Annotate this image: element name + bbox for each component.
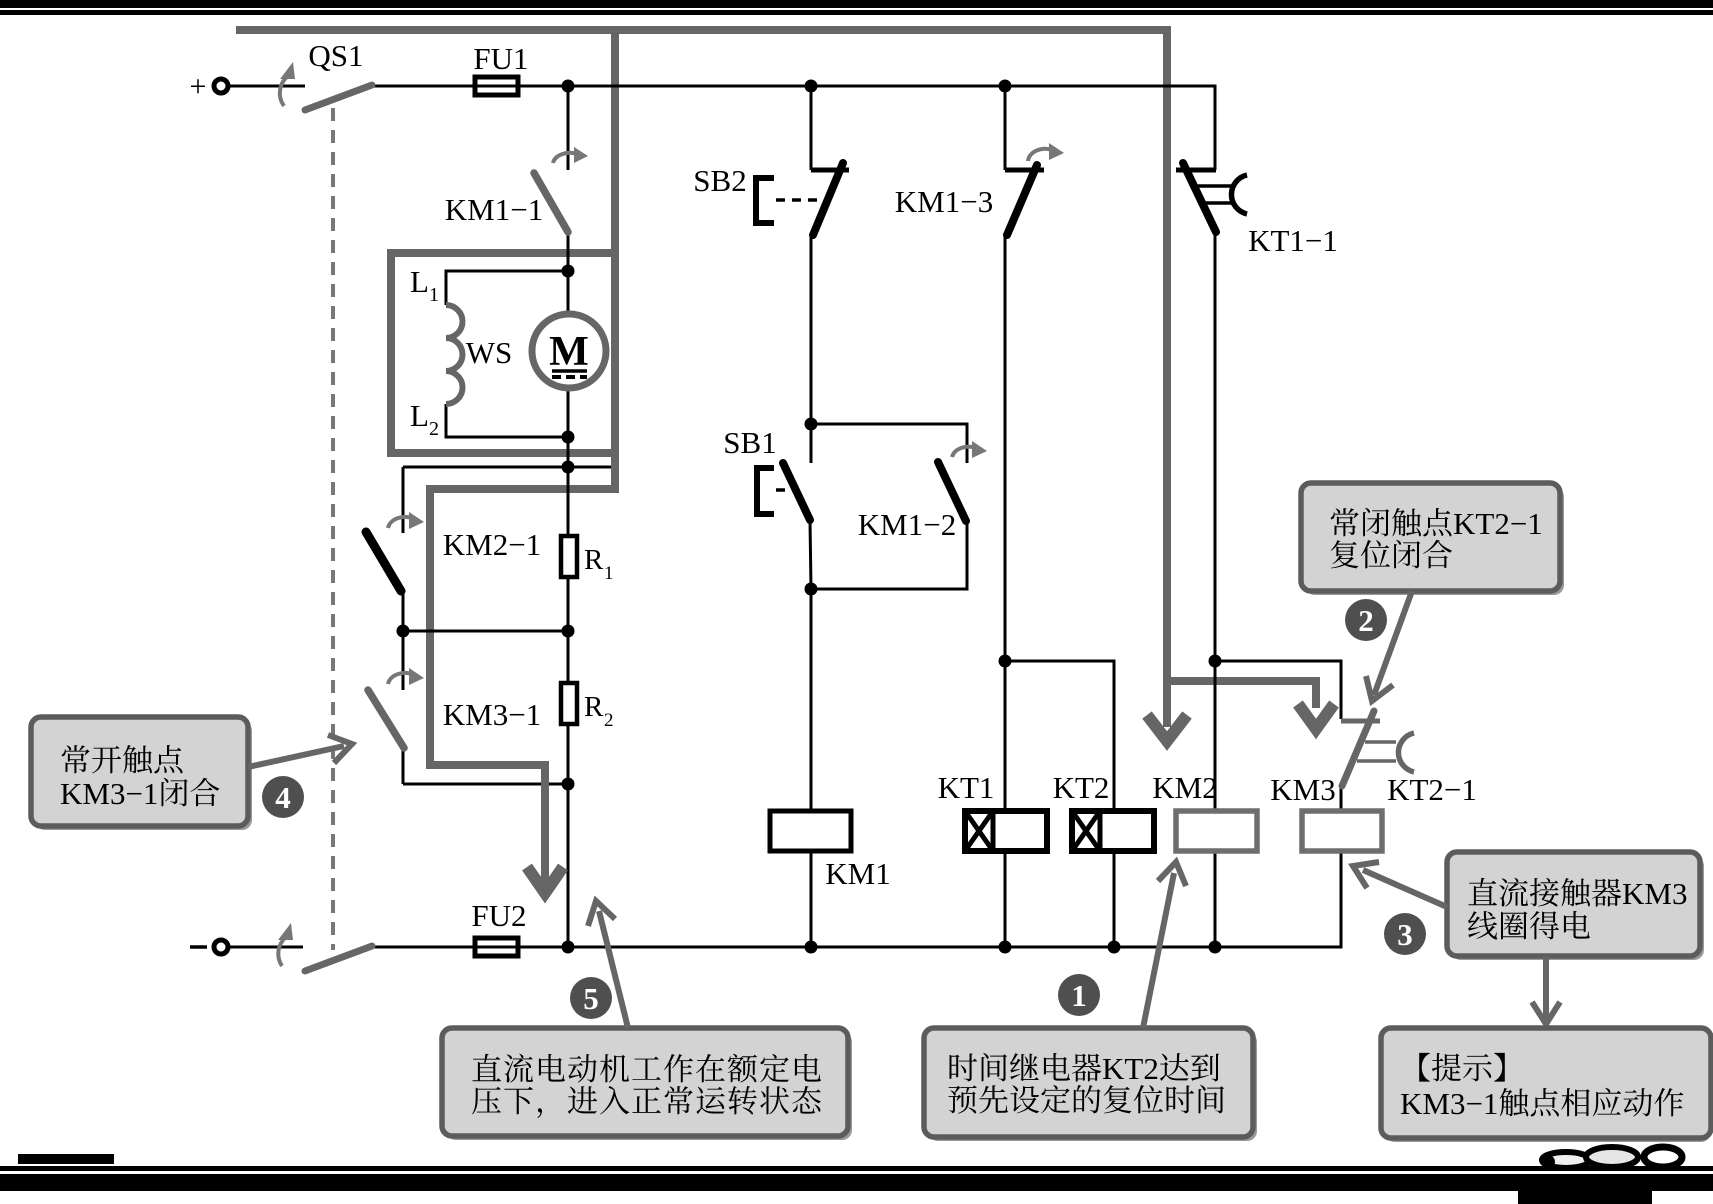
svg-text:KM2−1: KM2−1 — [443, 527, 541, 562]
svg-text:KT2−1: KT2−1 — [1453, 506, 1543, 541]
junction node: FU1 / KM1-1 branch on + rail — [562, 80, 575, 93]
action arrow at KM1-2 — [952, 441, 987, 458]
label KM1-1 — [445, 192, 543, 227]
flow arrow from box 3 to hint box — [1532, 956, 1560, 1024]
label KM2 — [1152, 770, 1217, 805]
action arrow at KM1-3 — [1028, 143, 1064, 161]
svg-text:KM3: KM3 — [1270, 772, 1335, 807]
svg-text:M: M — [549, 329, 589, 375]
wire: R1 branch — [567, 467, 570, 631]
coil KM2 (gray, energizing) — [1176, 811, 1257, 851]
svg-text:L: L — [410, 264, 429, 299]
wire: tap row to KT2 branch — [1005, 661, 1114, 947]
wire: KM3-1 branch — [402, 631, 405, 784]
resistor R2 — [561, 683, 577, 724]
label L2 — [410, 398, 439, 440]
svg-text:R: R — [584, 544, 604, 576]
svg-text:4: 4 — [275, 780, 291, 815]
resistor R1 — [561, 536, 577, 577]
svg-text:3: 3 — [1397, 917, 1413, 952]
contact KM3-1 (NO, gray blade) — [368, 690, 404, 748]
step circle 1 — [1058, 974, 1100, 1016]
motor enclosure box — [391, 253, 615, 453]
svg-text:KM3−1: KM3−1 — [443, 697, 541, 732]
label KM1-2 — [858, 507, 956, 542]
svg-text:KT1−1: KT1−1 — [1248, 223, 1338, 258]
callout hint box — [1381, 1028, 1711, 1142]
coil KM3 (gray, energizing) — [1302, 811, 1382, 851]
wire: KM1-3 branch to KT1 coil — [1004, 86, 1007, 947]
junction node: KM1 coil on - rail — [805, 941, 818, 954]
label QS1 — [308, 38, 363, 73]
action arrow at KM1-1 — [553, 147, 588, 163]
svg-text:KM3−1: KM3−1 — [60, 776, 158, 811]
callout box 2: NC contact KT2-1 recloses — [1301, 483, 1564, 595]
wire: node row below motor box — [403, 466, 611, 469]
svg-text:2: 2 — [1358, 603, 1374, 638]
wire: top +DC rail — [228, 86, 1215, 170]
pushbutton SB2 (NC stop button) — [753, 163, 849, 235]
svg-text:KT2−1: KT2−1 — [1387, 772, 1477, 807]
svg-text:KM1−3: KM1−3 — [895, 184, 993, 219]
label R1 — [584, 544, 614, 584]
label KM1-3 — [895, 184, 993, 219]
wire: middle node row (KM2-1 / R1 junction) — [403, 630, 568, 633]
action arrow at KM3-1 — [388, 668, 424, 685]
label KT1 — [938, 770, 995, 805]
field winding WS (inductor bumps) — [446, 305, 463, 404]
current-flow arrow at KM2 coil — [1147, 715, 1187, 741]
label SB2 — [693, 163, 746, 198]
svg-text:KM2: KM2 — [1152, 770, 1217, 805]
fuse FU1 — [475, 77, 518, 95]
time contact KT2-1 (NC with delay, gray) — [1341, 711, 1414, 786]
callout box 3: DC contactor KM3 coil energized — [1447, 852, 1704, 960]
junction node: motor branch / KM2-1 row — [562, 461, 575, 474]
step circle 2 — [1345, 599, 1387, 641]
junction node: KT1 branch / KT2 tap — [999, 655, 1012, 668]
wire: bottom node row to FU2 — [403, 784, 568, 947]
label KT2 — [1053, 770, 1110, 805]
current-flow arrow at KT2-1 contact — [1298, 704, 1334, 729]
junction node: R2 bottom / FU2 branch — [562, 778, 575, 791]
callout box 5: motor runs at rated voltage — [442, 1028, 852, 1140]
wire: field winding loop L1-L2 — [446, 271, 568, 437]
svg-text:1: 1 — [604, 563, 614, 584]
leader arrow 4 — [248, 735, 352, 767]
coil KM1 — [770, 811, 851, 851]
label WS — [466, 335, 513, 370]
svg-text:KM3: KM3 — [1622, 876, 1687, 911]
action arrow at QS1 lower pole — [278, 923, 293, 966]
label FU1 — [473, 41, 528, 76]
svg-text:KM1−1: KM1−1 — [445, 192, 543, 227]
leader arrow 5 — [588, 901, 628, 1028]
action arrow at QS1 upper pole — [280, 62, 295, 106]
fuse FU2 — [475, 938, 518, 956]
junction node: KT1 coil on - rail — [999, 941, 1012, 954]
time contact KT1-1 (NC with delay, black) — [1176, 163, 1247, 232]
current-flow highlight: right vertical path to KM2 — [1167, 26, 1316, 727]
decorative chalk doodles bottom right — [1541, 1147, 1682, 1169]
svg-text:+: + — [190, 70, 207, 103]
action arrow at KM2-1 — [388, 512, 424, 529]
wire: KM1 coil branch — [810, 589, 813, 947]
junction node: SB1 / KM1-2 parallel bottom — [805, 583, 818, 596]
label KM3 — [1270, 772, 1335, 807]
wire: motor branch vertical — [567, 271, 570, 467]
current-flow highlight: left vertical path through motor branch — [430, 26, 615, 765]
junction node: KM2-1 / KM3-1 mid row left — [397, 625, 410, 638]
label KM3-1 — [443, 697, 541, 732]
svg-text:KT1: KT1 — [938, 770, 995, 805]
step circle 5 — [570, 977, 612, 1019]
junction node: L2 / motor bottom — [562, 431, 575, 444]
svg-text:2: 2 — [604, 710, 614, 731]
wire: KT1-1 branch down to KM2 coil — [1214, 232, 1217, 947]
pushbutton SB1 (NO start button) — [754, 463, 810, 520]
svg-text:KT2: KT2 — [1102, 1051, 1159, 1086]
junction node: FU2 on - rail — [562, 941, 575, 954]
svg-text:L: L — [410, 398, 429, 433]
wire: R2 branch — [567, 631, 570, 784]
mechanical link dashed line of QS1 — [331, 108, 335, 950]
svg-text:KT2: KT2 — [1053, 770, 1110, 805]
junction node: KT1-1 branch / KM3 tap — [1209, 655, 1222, 668]
label SB1 — [723, 425, 776, 460]
junction node: R1 / R2 mid row right — [562, 625, 575, 638]
label KM2-1 — [443, 527, 541, 562]
wire: SB2 branch — [810, 86, 813, 424]
svg-text:SB1: SB1 — [723, 425, 776, 460]
label L1 — [410, 264, 439, 306]
wire: KM1-1 branch from FU1 node — [567, 86, 570, 271]
leader arrow 3 — [1353, 862, 1447, 907]
page bottom border bar — [0, 1154, 1713, 1204]
label KM1 — [825, 856, 890, 891]
page top border bar — [0, 0, 1713, 15]
step circle 4 — [262, 776, 304, 818]
contact KM1-3 (NC, black blade) — [1005, 165, 1044, 235]
wire: KM2-1 branch — [402, 467, 405, 631]
current-flow highlight: top gray bus — [236, 26, 1167, 34]
callout box 4: KM3-1 closes — [31, 717, 252, 830]
junction node: KM1-3 branch on + rail — [999, 80, 1012, 93]
svg-text:R: R — [584, 691, 604, 723]
label R2 — [584, 691, 614, 731]
step circle 3 — [1384, 913, 1426, 955]
wire: SB1 / KM1-2 parallel loop — [810, 424, 967, 589]
junction node: SB2 branch on + rail — [805, 80, 818, 93]
label KT2-1 — [1387, 772, 1477, 807]
terminal - (negative supply) — [190, 940, 228, 954]
current-flow arrow into FU2 node — [527, 761, 563, 893]
svg-text:WS: WS — [466, 335, 513, 370]
junction node: L1 / motor top — [562, 265, 575, 278]
motor M circle — [532, 314, 606, 388]
label KT1-1 — [1248, 223, 1338, 258]
wire: node row to KM3 / KT2-1 branch — [1215, 661, 1341, 811]
svg-text:KM1: KM1 — [825, 856, 890, 891]
svg-text:1: 1 — [1071, 978, 1087, 1013]
svg-text:2: 2 — [429, 418, 439, 440]
coil KT1 (time relay, X section) — [965, 811, 1047, 851]
leader arrow 1 — [1143, 862, 1186, 1028]
svg-text:KM1−2: KM1−2 — [858, 507, 956, 542]
leader arrow 2 — [1366, 591, 1412, 701]
contact KM2-1 (NO, black blade) — [366, 532, 401, 591]
label FU2 — [471, 898, 526, 933]
coil KT2 (time relay, X section) — [1072, 811, 1154, 851]
contact KM1-1 (NO, gray blade) — [534, 173, 568, 232]
switch QS1 upper pole blade — [305, 85, 372, 110]
junction node: SB1 / KM1-2 parallel top — [805, 418, 818, 431]
svg-text:FU1: FU1 — [473, 41, 528, 76]
svg-text:SB2: SB2 — [693, 163, 746, 198]
contact KM1-2 (NO, black blade) — [938, 462, 966, 521]
svg-text:1: 1 — [429, 284, 439, 306]
terminal + (positive supply) — [190, 70, 228, 103]
junction node: KM2 coil on - rail — [1209, 941, 1222, 954]
callout box 1: KT2 reaches preset reset time — [924, 1028, 1257, 1141]
switch QS1 lower pole blade — [305, 946, 372, 971]
svg-text:FU2: FU2 — [471, 898, 526, 933]
junction node: KT2 coil on - rail — [1108, 941, 1121, 954]
svg-text:5: 5 — [583, 981, 599, 1016]
wire: bottom -DC rail — [228, 851, 1341, 947]
svg-text:QS1: QS1 — [308, 38, 363, 73]
svg-text:KM3−1: KM3−1 — [1400, 1086, 1498, 1121]
